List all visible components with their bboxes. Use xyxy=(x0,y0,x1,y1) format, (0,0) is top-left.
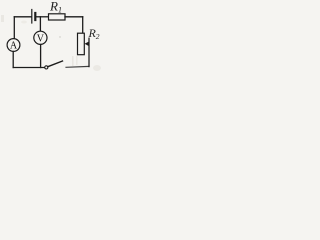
wire top-left segment xyxy=(14,16,31,18)
svg-text:1: 1 xyxy=(58,6,62,15)
switch pivot circle xyxy=(45,66,48,69)
wire battery to R1 xyxy=(37,16,49,18)
switch blade xyxy=(48,61,63,67)
svg-text:V: V xyxy=(37,33,45,44)
wire bottom-left to switch xyxy=(13,67,45,69)
wire right side down to R2 xyxy=(82,17,84,33)
wire R1 to top-right corner xyxy=(65,16,83,18)
wire switch contact to right xyxy=(66,65,89,68)
wire left side down to ammeter xyxy=(13,17,15,39)
ammeter A circle xyxy=(7,39,20,52)
voltmeter branch bottom wire xyxy=(40,45,42,68)
svg-text:A: A xyxy=(10,41,18,52)
svg-text:R: R xyxy=(49,0,58,14)
wiper wire vertical xyxy=(88,38,90,66)
resistor R1 box xyxy=(49,14,66,20)
svg-text:2: 2 xyxy=(96,32,100,41)
wiper arrowhead xyxy=(85,41,90,46)
battery long plate xyxy=(31,10,33,24)
voltmeter branch top wire xyxy=(39,17,41,32)
rheostat R2 box xyxy=(78,33,85,55)
wire ammeter to bottom-left corner xyxy=(12,52,14,68)
faint scan smudges (paper noise) xyxy=(1,15,101,71)
voltmeter V circle xyxy=(34,31,47,44)
battery short plate xyxy=(34,13,36,20)
